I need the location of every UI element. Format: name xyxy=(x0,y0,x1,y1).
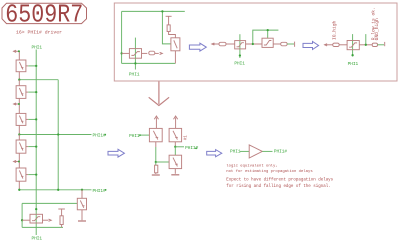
svg-text:PHI1: PHI1 xyxy=(234,62,245,67)
pin dot QA gate xyxy=(139,134,141,136)
junction Q3 gate xyxy=(35,118,37,120)
svg-text:for rising and falling edge of: for rising and falling edge of the signa… xyxy=(226,184,330,189)
svg-text:PHI1#: PHI1# xyxy=(93,134,107,139)
transistor Q3 xyxy=(16,113,28,134)
wire PHI1 to QA xyxy=(139,134,149,136)
transistor Q4 xyxy=(16,140,28,168)
wire Q4 gate to rail xyxy=(28,146,36,148)
wire gate loop top xyxy=(22,202,77,204)
pin arrow up B xyxy=(174,116,178,128)
junction node mid xyxy=(155,161,157,163)
svg-text:Expect to have different propa: Expect to have different propagation del… xyxy=(226,177,333,182)
node junction feedback bottom xyxy=(252,43,254,45)
junction node3 Q7 xyxy=(81,189,83,191)
node junction under Q12 xyxy=(351,54,353,56)
wire node to QC gate xyxy=(156,161,169,163)
label dot node3 xyxy=(105,189,107,191)
svg-text:PHI1: PHI1 xyxy=(230,150,241,155)
svg-text:PHI1: PHI1 xyxy=(348,62,359,67)
pad oval out of Q8 xyxy=(149,51,163,55)
junction node1 xyxy=(18,79,20,81)
transistor Q5 xyxy=(16,168,28,190)
input arrow into Q10 xyxy=(212,43,219,45)
blue arrow 4 xyxy=(207,150,222,157)
input pin arrow 3 xyxy=(14,160,19,162)
pad oval out of Q11 xyxy=(281,42,287,46)
wire QA source to node xyxy=(155,147,157,162)
resistor R2 xyxy=(155,162,158,174)
svg-text:#1: #1 xyxy=(185,135,189,141)
wire: PHI1 gate line through Q8 xyxy=(134,38,136,70)
wire pad to Q12 xyxy=(339,44,347,46)
svg-text:PHI1: PHI1 xyxy=(32,45,43,50)
wire Q5 gate to rail xyxy=(28,174,36,176)
wire: cell1 loop bottom xyxy=(122,62,176,64)
node junction Q8 left pin xyxy=(120,52,122,54)
transistor QC xyxy=(169,155,182,174)
wire into buffer xyxy=(240,150,249,152)
wire R3 to loop bottom xyxy=(61,225,63,228)
input pin arrow 2 xyxy=(14,103,19,105)
resistor R1 xyxy=(167,25,170,32)
node junction at stub xyxy=(365,44,367,46)
junction node3 rail2 xyxy=(57,189,59,191)
wire Q1 gate to rail xyxy=(28,65,36,67)
junction node2 rail2 xyxy=(57,133,59,135)
pad oval output right xyxy=(372,43,377,46)
wire QB to QC xyxy=(174,147,176,155)
input arrow into Q12 xyxy=(325,44,333,46)
pin dot 1 xyxy=(18,50,20,52)
label dot mid xyxy=(195,147,197,149)
blue arrow 3 xyxy=(108,149,124,157)
svg-text:PHI1#: PHI1# xyxy=(274,150,288,155)
resistor R3 xyxy=(60,216,63,225)
transistor Q6 output driver xyxy=(22,214,51,223)
transistor Q7 pulldown xyxy=(77,190,86,221)
wire oval to Q10 xyxy=(226,43,235,45)
wire node1 to rail2 xyxy=(19,79,58,81)
stub wire up xyxy=(365,34,367,45)
wire node2 to Q4 xyxy=(18,135,20,141)
svg-text:PHI1: PHI1 xyxy=(32,237,43,242)
pin end bar xyxy=(294,42,296,47)
transistor Q11 xyxy=(262,38,273,47)
label dot node2 xyxy=(104,134,106,136)
junction Q6 left pin xyxy=(21,219,23,221)
svg-text:logic equivalent only,: logic equivalent only, xyxy=(226,163,277,168)
pin end bar right xyxy=(384,42,386,46)
detail frame box xyxy=(114,3,397,81)
wire Q12 right xyxy=(359,44,372,46)
transistor Q1 xyxy=(16,60,28,80)
wire rail2 xyxy=(57,80,59,190)
junction node2 xyxy=(18,133,20,135)
junction Q5 gate xyxy=(35,173,37,175)
junction node3 left xyxy=(18,189,20,191)
junction Q2 gate xyxy=(35,91,37,93)
transistor Q9 xyxy=(171,38,180,64)
junction rail into Q6 xyxy=(35,208,37,210)
junction Q4 gate xyxy=(35,145,37,147)
wire Q11 to pad xyxy=(273,43,281,45)
wire gate loop left xyxy=(21,203,23,227)
pad oval into Q10 xyxy=(219,42,226,46)
wire node1 to Q2 xyxy=(18,80,20,86)
ground under QC xyxy=(171,174,179,176)
blue arrow 1 xyxy=(189,43,206,51)
ground under R2 xyxy=(152,174,160,176)
node junction under Q10 xyxy=(239,54,241,56)
junction Q1 gate xyxy=(35,65,37,67)
vcc T bar above R1 xyxy=(166,16,172,25)
node junction Q8 gate/bottom xyxy=(134,62,136,64)
pin arrow up A xyxy=(154,116,158,128)
wire: gate elbow to Q9 xyxy=(162,11,171,44)
svg-text:16> PHI1# driver: 16> PHI1# driver xyxy=(16,29,62,35)
node junction at loop top xyxy=(161,10,163,12)
transistor Q2 xyxy=(16,86,28,114)
feedback wire xyxy=(253,30,279,44)
transistor Q8 xyxy=(122,49,148,59)
svg-text:6509R7: 6509R7 xyxy=(5,1,83,30)
transistor QA xyxy=(149,128,162,147)
input pin arrow 1 xyxy=(14,50,20,60)
wire Q10 to Q11 xyxy=(246,43,262,45)
wire Q11 drain up xyxy=(267,30,269,38)
svg-text:PHI1: PHI1 xyxy=(129,134,140,139)
transistor Q12 xyxy=(347,41,359,50)
big red down arrow xyxy=(149,82,169,106)
pin dot 3 xyxy=(18,161,20,163)
pad oval into Q12 xyxy=(333,43,340,46)
wire: PHI1 gate line through Q12 xyxy=(352,34,354,56)
node junction feedback top xyxy=(267,29,269,31)
wire PHI1 rail xyxy=(35,50,37,236)
svg-text:GND_high: GND_high xyxy=(374,18,380,40)
transistor Q10 xyxy=(235,41,246,49)
wire pad to pin end xyxy=(378,44,385,46)
wire pad to pin end xyxy=(287,43,294,45)
ground under Q7 xyxy=(78,220,86,222)
wire Q2 gate to rail xyxy=(28,91,36,93)
pin dot 2 xyxy=(18,103,20,105)
buffer triangle U1 xyxy=(249,145,262,158)
wire: cell1 loop top xyxy=(122,10,185,12)
svg-text:IO_high: IO_high xyxy=(331,20,337,40)
wire: PHI1 gate line through Q10 xyxy=(239,34,241,58)
transistor QB xyxy=(169,128,182,146)
junction PHI1# mid xyxy=(174,146,176,148)
vcc T bar above R3 xyxy=(58,209,65,216)
blue arrow 2 xyxy=(303,41,319,49)
svg-text:PHI1#: PHI1# xyxy=(93,189,107,194)
wire gate loop bottom xyxy=(22,226,63,228)
wire to PHI1# label mid xyxy=(175,146,184,148)
title frame octagon xyxy=(2,3,87,23)
wire: cell1 loop left xyxy=(121,11,123,63)
wire out of buffer xyxy=(262,150,272,152)
wire Q3 gate to rail xyxy=(28,118,36,120)
wire node3 PHI1# bottom xyxy=(19,189,91,191)
svg-text:not for estimating propagation: not for estimating propagation delays xyxy=(226,169,313,174)
wire node2 PHI1# xyxy=(19,134,91,136)
svg-text:PHI1: PHI1 xyxy=(129,73,140,78)
wire R1 to Q9 xyxy=(169,32,176,38)
